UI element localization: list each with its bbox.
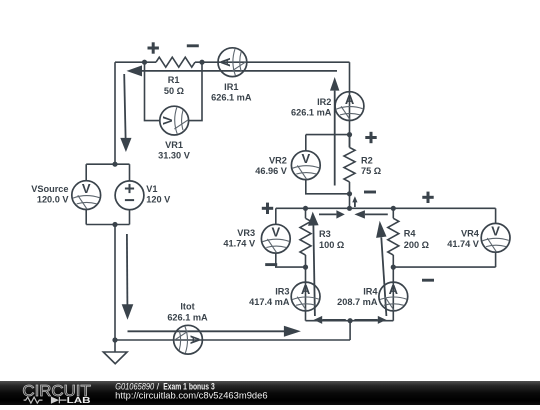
svg-text:626.1 mA: 626.1 mA (211, 93, 252, 103)
voltmeter VR4 41.74 V (481, 223, 510, 252)
svg-text:VR2: VR2 (269, 155, 287, 165)
svg-text:R2: R2 (361, 155, 373, 165)
ammeter IR3 417.4 mA (291, 282, 320, 311)
wire top rail left (V1+ to R1) (115, 61, 156, 63)
svg-text:626.1 mA: 626.1 mA (167, 312, 208, 322)
current arrow up along R3 (308, 212, 319, 316)
ammeter Itot 626.1 mA (174, 325, 203, 354)
current arrow right on bottom rail (354, 316, 386, 324)
svg-text:IR2: IR2 (317, 97, 331, 107)
wire VSource bottom lead (85, 210, 87, 225)
wire left vertical lower (114, 225, 116, 341)
wire VR2 top lead (305, 135, 307, 151)
svg-text:V: V (82, 181, 91, 196)
polarity + (R4 top) (422, 192, 433, 203)
svg-text:A: A (301, 282, 311, 297)
svg-text:41.74 V: 41.74 V (447, 239, 480, 249)
ammeter IR1 626.1 mA (218, 48, 247, 77)
svg-text:31.30 V: 31.30 V (158, 151, 191, 161)
svg-text:IR1: IR1 (224, 82, 238, 92)
svg-text:626.1 mA: 626.1 mA (291, 107, 332, 117)
current arrow right into center node (319, 210, 345, 218)
svg-text:A: A (218, 57, 233, 67)
node R2 top / VR2 tap (347, 132, 352, 137)
wire top rail right (R1 to IR2 corner, through IR1) (195, 61, 350, 63)
node R3 bottom / VR3 tap (303, 265, 308, 270)
current arrow left into center node (354, 210, 387, 218)
wire VR1 right branch (189, 62, 202, 120)
svg-text:46.96 V: 46.96 V (255, 166, 288, 176)
current arrow up through R2 branch (330, 77, 339, 186)
current arrow left on bottom rail (314, 316, 346, 324)
svg-text:75 Ω: 75 Ω (361, 166, 381, 176)
ammeter IR4 208.7 mA (379, 282, 408, 311)
wire VR2 bottom branch (306, 180, 350, 194)
wire ground stem (114, 340, 116, 352)
wire R4 bottom through IR4 (392, 255, 394, 321)
svg-text:208.7 mA: 208.7 mA (337, 297, 378, 307)
node R1 left / VR1 tap (142, 60, 147, 65)
wire VR3 bottom branch (276, 253, 306, 267)
svg-text:VR1: VR1 (165, 140, 183, 150)
svg-text:A: A (389, 282, 399, 297)
svg-text:V: V (160, 116, 175, 125)
polarity - (R4 bottom) (422, 279, 434, 282)
wire V1 bottom lead (129, 210, 131, 225)
wire VR3 top lead (275, 208, 277, 224)
svg-text:200 Ω: 200 Ω (404, 240, 429, 250)
footer title text (115, 382, 267, 401)
polarity + (R2 top) (365, 132, 376, 143)
svg-text:Itot: Itot (180, 302, 194, 312)
svg-text:120.0 V: 120.0 V (37, 195, 70, 205)
node rail / riser (348, 318, 353, 323)
wire VSource/V1 top bracket (86, 163, 129, 165)
wire bottom return (through Itot) (115, 339, 350, 341)
voltmeter VSource 120.0 V (72, 181, 101, 210)
resistor R2 75 ohm (344, 135, 355, 182)
svg-text:A: A (345, 92, 355, 107)
current arrow left along top (127, 65, 338, 76)
current arrow down left lower (122, 234, 134, 320)
node R1 right / VR1 tap (199, 60, 204, 65)
wire R4/VR4 bottom link (393, 266, 495, 268)
wire VSource top lead (85, 164, 87, 181)
svg-text:IR3: IR3 (275, 286, 289, 296)
wire R3 bottom through IR3 (305, 255, 307, 321)
node bus / R4 top (391, 206, 396, 211)
svg-text:41.74 V: 41.74 V (223, 239, 256, 249)
svg-text:VR4: VR4 (461, 228, 480, 238)
wire R2 bottom to center node (349, 182, 351, 208)
svg-text:50 Ω: 50 Ω (164, 86, 184, 96)
wire VR2 top tap (306, 134, 350, 136)
wire VR1 left branch (145, 62, 160, 120)
wire middle bus (276, 207, 496, 209)
svg-text:VR3: VR3 (237, 228, 255, 238)
wire V1 top lead (129, 164, 131, 181)
node R2 bottom / VR2 tap (347, 191, 352, 196)
wire bottom rail between IR3 and IR4 (306, 320, 394, 322)
wire right column (through IR2 to R2 top) (349, 62, 351, 147)
current arrow small up at center node (352, 196, 357, 207)
current arrow right along bottom (128, 326, 301, 337)
svg-text:R4: R4 (404, 229, 417, 239)
polarity - (R2 bottom) (364, 191, 376, 194)
svg-text:A: A (187, 335, 202, 345)
wire left vertical upper (114, 62, 116, 164)
wire rail riser (349, 321, 351, 340)
wire VSource/V1 bottom bracket (86, 224, 129, 226)
voltmeter VR3 41.74 V (261, 224, 290, 253)
svg-text:100 Ω: 100 Ω (319, 240, 344, 250)
node VSource bracket top (112, 162, 117, 167)
svg-text:V: V (491, 224, 500, 239)
svg-text:417.4 mA: 417.4 mA (249, 297, 290, 307)
current arrow up along R4 (376, 221, 386, 316)
svg-text:V1: V1 (146, 184, 157, 194)
svg-text:R3: R3 (319, 229, 331, 239)
ground (103, 352, 127, 364)
svg-text:V: V (301, 151, 310, 166)
voltmeter VR2 46.96 V (291, 151, 320, 180)
current arrow down left upper (120, 74, 131, 152)
node bus / R3 top (303, 206, 308, 211)
node R4 bottom / VR4 tap (391, 265, 396, 270)
wire VR4 top lead (495, 208, 497, 223)
resistor R3 100 ohm (300, 208, 311, 255)
resistor R1 50 ohm (156, 57, 195, 67)
svg-text:VSource: VSource (31, 184, 68, 194)
polarity - (R3 bottom) (265, 263, 277, 266)
svg-text:V: V (271, 224, 280, 239)
resistor R4 200 ohm (388, 208, 399, 255)
node bottom left / ground (112, 337, 117, 342)
svg-text:http://circuitlab.com/c8v5z463: http://circuitlab.com/c8v5z463m9de6 (115, 391, 267, 401)
CircuitLab logo resistor-diode glyph (24, 397, 67, 403)
polarity + (R3 top) (262, 203, 273, 214)
svg-text:R1: R1 (168, 75, 180, 85)
svg-text:120 V: 120 V (146, 195, 171, 205)
ammeter IR2 626.1 mA (335, 92, 364, 121)
node bus center (347, 206, 352, 211)
polarity + (R1 left) (148, 42, 159, 53)
voltage source V1 120 V (115, 181, 144, 210)
wire VR4 bottom lead (495, 252, 497, 267)
voltmeter VR1 31.30 V (160, 106, 189, 135)
node VSource bracket bottom (112, 222, 117, 227)
svg-text:LAB: LAB (67, 395, 91, 405)
polarity - (R1 right) (187, 44, 199, 47)
svg-text:IR4: IR4 (363, 286, 378, 296)
